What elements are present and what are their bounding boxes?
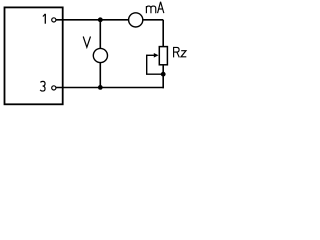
node junction wiper xyxy=(161,72,166,77)
wiper return vertical xyxy=(146,55,148,75)
wiper arrowhead xyxy=(154,53,159,58)
label V xyxy=(83,37,90,48)
terminal 3 xyxy=(52,86,56,90)
resistor Rz body xyxy=(159,47,167,65)
terminal 1 xyxy=(52,18,56,22)
ammeter mA xyxy=(129,13,143,27)
wire top: terminal 1 to right corner xyxy=(56,19,164,21)
label 1 xyxy=(43,14,45,24)
label mA xyxy=(146,2,163,13)
label 3 xyxy=(40,81,45,91)
node junction bottom (V branch) xyxy=(98,85,103,90)
wiper return horizontal xyxy=(146,73,163,75)
device box xyxy=(5,7,63,104)
node junction top (V branch) xyxy=(98,17,103,22)
voltmeter V xyxy=(93,48,107,62)
label Rz xyxy=(174,47,187,58)
wire right vertical: corner down to resistor / bottom xyxy=(162,20,164,89)
wire bottom: right corner to terminal 3 xyxy=(56,87,164,89)
wiper arrow shaft xyxy=(147,54,155,56)
wire V-meter branch vertical xyxy=(99,20,101,88)
